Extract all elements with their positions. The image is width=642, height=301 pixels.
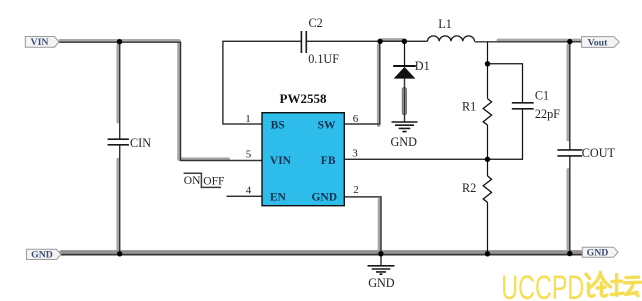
wire VIN net dark line [59,42,262,160]
svg-text:2: 2 [353,184,359,196]
junction node C1 top [485,61,490,66]
wire C1 branch bottom [488,109,523,160]
wire band CIN upper [116,45,119,122]
wire band VIN rail highlight [60,41,228,159]
CJK lun ren-roof right stroke [601,274,611,287]
svg-text:6: 6 [353,113,359,125]
svg-text:COUT: COUT [582,146,616,160]
svg-text:D1: D1 [415,59,430,73]
wire EN stub [227,195,263,197]
svg-text:4: 4 [246,185,252,197]
svg-text:SW: SW [318,120,336,132]
capacitor C2 [301,16,339,66]
CJK lun bi horizontal [597,286,605,290]
wire C2 to SW node [306,40,380,42]
CJK tan si dot [635,293,638,296]
svg-text:ON: ON [184,175,201,187]
wire SW pin riser dark line [344,41,380,124]
wire bottom GND rail dark line [61,254,582,256]
svg-text:GND: GND [587,248,609,259]
wire band SW top segment [382,38,403,41]
capacitor CIN [108,136,152,150]
wire FB pin to divider [344,158,487,160]
CJK tan si falling stroke [626,283,634,294]
CJK tan earth vertical [615,275,618,296]
CJK tan earth upper horizontal [612,280,622,284]
inductor L1 [428,17,475,41]
resistor R2 [462,176,492,202]
wire band D1 anode [402,90,407,113]
CJK lun speech-radical dot [586,274,590,279]
net label GND left [27,249,62,260]
wire band COUT upper [567,45,570,139]
wire SW node to L1 [380,40,427,42]
net label VIN [25,37,59,49]
svg-text:C2: C2 [309,16,323,30]
svg-text:R2: R2 [462,181,476,195]
CJK tan yun second horizontal [624,281,641,285]
svg-text:EN: EN [270,192,287,204]
wire band Vout rail [498,39,580,42]
junction node CIN/GND rail [117,251,122,256]
svg-text:PW2558: PW2558 [280,91,327,106]
svg-text:CIN: CIN [130,136,151,150]
svg-text:3: 3 [352,147,358,159]
CJK tan yun first horizontal [626,276,639,280]
net label Vout [582,37,620,49]
junction node VIN/CIN [117,39,122,44]
CJK lun bi vertical hook [601,283,607,296]
wire CIN branch dark line upper [119,42,121,139]
svg-text:R1: R1 [462,100,476,114]
wire C1 branch top [488,64,523,103]
svg-text:UCCPD: UCCPD [501,269,584,301]
wire CIN branch dark line lower [119,145,121,255]
CJK tan earth lower horizontal [611,293,623,294]
svg-text:VIN: VIN [270,155,292,167]
svg-text:0.1UF: 0.1UF [308,52,339,66]
svg-text:GND: GND [311,192,337,204]
junction node pin2/GND rail [378,251,383,256]
svg-text:L1: L1 [438,17,452,31]
wire R1 branch upper [487,42,489,99]
wire R2 branch upper [487,159,489,176]
junction node FB [485,157,490,162]
svg-text:1: 1 [245,113,251,125]
junction node Vout/COUT [567,39,572,44]
junction node R2/GND rail [485,251,490,256]
junction node COUT/GND rail [567,251,572,256]
capacitor COUT [557,146,615,160]
wire band bottom GND rail [62,250,582,254]
wire band GND pin riser [378,200,381,250]
wire D1 cathode stub [404,41,406,65]
wire BS pin to C2 [223,41,302,124]
wire L1 to Vout dark line [475,41,584,43]
CJK lun ren-roof left stroke [590,272,601,288]
switch annotation ON/OFF [184,173,225,187]
watermark UCCPD forum [501,269,641,301]
svg-text:OFF: OFF [203,176,224,188]
wire R1 branch lower [487,125,489,159]
svg-text:Vout: Vout [588,37,609,48]
CJK lun speech-radical hook [589,284,595,297]
CJK tan si bottom stroke [626,292,637,294]
svg-text:BS: BS [271,120,285,132]
wire IC GND pin dark line [344,197,381,254]
svg-text:GND: GND [31,250,53,261]
svg-text:VIN: VIN [31,37,49,48]
svg-text:GND: GND [368,276,395,290]
svg-text:22pF: 22pF [535,107,560,121]
junction node SW riser [377,39,382,44]
capacitor C1 [512,89,560,121]
wire band COUT lower [567,170,570,249]
wire D1 anode dark line [404,79,406,122]
wire COUT branch dark line lower [569,156,571,254]
svg-text:GND: GND [391,135,418,149]
wire band SW riser [377,45,380,125]
svg-text:5: 5 [246,148,252,160]
junction node D1 [402,39,407,44]
ground symbol below pin 2 [368,256,395,291]
wire R2 branch lower [487,202,489,254]
ground symbol below D1 [391,122,418,149]
wire COUT branch dark line upper [569,42,571,150]
net label GND right [582,247,618,258]
wire band CIN lower [116,160,119,250]
svg-text:C1: C1 [535,89,549,103]
resistor R1 [462,99,492,125]
svg-text:FB: FB [321,155,336,167]
IC U1 PW2558 buck converter [262,91,344,206]
diode D1 [393,59,430,79]
